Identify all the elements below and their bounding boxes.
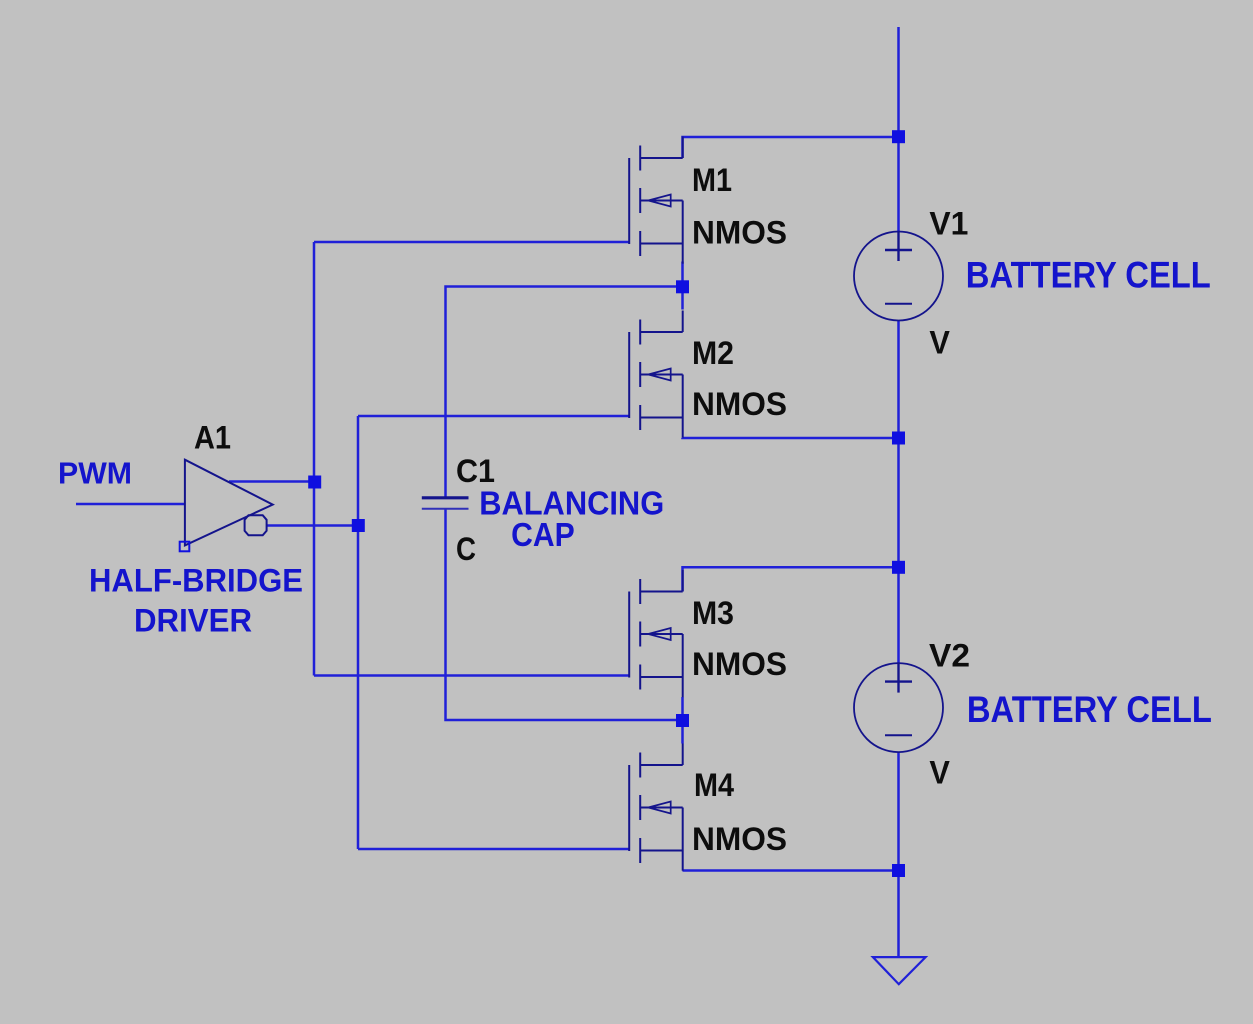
junction rail M2 source xyxy=(892,432,905,445)
transistor M1 xyxy=(629,137,683,264)
svg-text:V2: V2 xyxy=(929,637,970,673)
op-amp A1 half-bridge driver triangle xyxy=(185,460,273,546)
wire rail V1 bottom to V2 top xyxy=(897,321,900,664)
wire M1 gate horizontal xyxy=(314,241,629,244)
svg-text:CAP: CAP xyxy=(511,516,575,553)
wire A1 upper output xyxy=(229,480,314,483)
svg-text:M4: M4 xyxy=(694,767,734,803)
wire M2 gate horizontal xyxy=(358,415,629,418)
svg-text:BATTERY CELL: BATTERY CELL xyxy=(966,255,1211,296)
svg-text:V1: V1 xyxy=(929,206,968,242)
wire vertical bus lower-output to M2/M4 gates xyxy=(357,416,360,849)
transistor M3 xyxy=(629,570,683,697)
svg-text:NMOS: NMOS xyxy=(692,215,787,251)
junction rail M4 source xyxy=(892,864,905,877)
svg-text:HALF-BRIDGE: HALF-BRIDGE xyxy=(89,563,303,599)
wire rail V2 bottom to ground xyxy=(897,752,900,957)
wire M4 source to rail xyxy=(683,869,899,872)
wire node M1-source M2-drain xyxy=(681,262,684,310)
junction rail M3 drain xyxy=(892,561,905,574)
wire M3 gate horizontal xyxy=(314,674,629,677)
voltage source V1 xyxy=(854,232,943,321)
wire cap bottom to node xyxy=(446,509,683,720)
wire node M3-source M4-drain xyxy=(681,697,684,744)
svg-text:V: V xyxy=(929,325,950,361)
svg-text:DRIVER: DRIVER xyxy=(134,602,252,638)
svg-text:C: C xyxy=(456,531,476,567)
svg-text:NMOS: NMOS xyxy=(692,821,787,857)
svg-text:NMOS: NMOS xyxy=(692,646,787,682)
wire top rail above V1 xyxy=(897,27,900,232)
junction A1 lower output xyxy=(352,519,365,532)
svg-text:V: V xyxy=(929,754,950,790)
svg-text:A1: A1 xyxy=(194,420,231,456)
wire M1 drain to rail xyxy=(683,137,899,158)
wire A1 lower output xyxy=(267,524,358,527)
svg-text:NMOS: NMOS xyxy=(692,386,787,422)
junction rail top xyxy=(892,130,905,143)
wire M3 drain to rail xyxy=(683,567,899,591)
ground xyxy=(873,957,926,984)
pin marker A1 bottom-left xyxy=(180,542,190,552)
wire M2 source to rail xyxy=(683,436,899,439)
wire PWM input xyxy=(76,503,185,506)
capacitor C1 xyxy=(422,498,469,509)
transistor M2 xyxy=(629,311,683,438)
wire M4 gate horizontal xyxy=(358,848,629,851)
junction node M3/M4 xyxy=(676,714,689,727)
junction A1 upper output xyxy=(308,476,321,489)
svg-text:PWM: PWM xyxy=(58,456,132,491)
svg-text:BATTERY CELL: BATTERY CELL xyxy=(967,689,1212,730)
transistor M4 xyxy=(629,744,683,871)
svg-text:M3: M3 xyxy=(692,595,734,631)
voltage source V2 xyxy=(854,663,943,752)
wire cap top to node xyxy=(446,287,683,498)
svg-text:M2: M2 xyxy=(692,335,734,371)
svg-text:M1: M1 xyxy=(692,162,732,198)
junction node M1/M2 xyxy=(676,280,689,293)
wire vertical bus upper-output to M1/M3 gates xyxy=(313,242,316,676)
